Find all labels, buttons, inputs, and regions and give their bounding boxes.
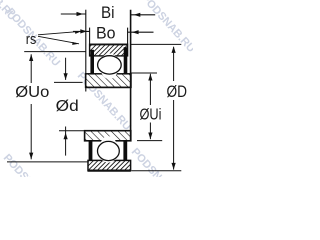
left seal (bottom section) xyxy=(89,141,93,161)
rs upper arrowhead xyxy=(75,31,82,34)
rs upper leader line xyxy=(38,31,82,35)
OD down arrowhead xyxy=(172,163,176,170)
dimension OUi xyxy=(131,73,162,141)
outer ring bottom outer-diameter edge xyxy=(88,169,131,171)
Od upper dimension line xyxy=(65,58,67,80)
inner ring bottom cross-section (hatched) xyxy=(85,131,131,141)
bore surface bottom edge xyxy=(85,130,131,132)
outer raceway groove cut (bottom) xyxy=(100,145,116,162)
OUo up arrowhead xyxy=(29,54,33,61)
dimension Od (bore) xyxy=(54,58,85,156)
svg-text:Bi: Bi xyxy=(101,3,115,22)
OD upper dimension line xyxy=(173,47,175,81)
outer raceway groove cut (top) xyxy=(101,53,117,70)
OD lower dimension line xyxy=(173,100,175,170)
Bo left extension line xyxy=(89,28,91,45)
OUi down arrowhead xyxy=(148,133,152,140)
dimension OD (outer diameter) xyxy=(131,44,181,170)
svg-text:rs: rs xyxy=(26,31,37,48)
Bi right dimension line xyxy=(131,14,155,16)
OUo upper dimension line xyxy=(30,54,32,83)
Ui recess bottom extension line xyxy=(137,140,162,142)
Bo left arrowhead xyxy=(80,29,87,33)
outer ring bottom cross-section (hatched) xyxy=(88,160,131,170)
Uo recess bottom extension line xyxy=(7,161,88,163)
Od up arrowhead xyxy=(64,133,68,140)
OUi up arrowhead xyxy=(148,74,152,81)
Bi left dimension line xyxy=(61,13,86,15)
OUi upper dimension line xyxy=(149,74,151,105)
Bo left dimension line xyxy=(73,30,90,32)
bore surface top edge xyxy=(86,86,131,88)
Bo right extension line xyxy=(127,28,129,45)
inner ring left face line / Bi left extension xyxy=(85,10,87,92)
svg-text:Bo: Bo xyxy=(96,23,116,42)
Bi right arrowhead xyxy=(134,13,141,17)
ball (bottom section) xyxy=(98,141,120,160)
ball clearance (bottom) xyxy=(96,140,121,161)
ball (top section) xyxy=(98,56,122,74)
inner ring right face line / Bi right extension xyxy=(130,10,132,141)
inner raceway groove cut (top) xyxy=(101,62,117,79)
rs lower arrowhead xyxy=(72,42,79,45)
svg-text:ØUo: ØUo xyxy=(15,84,49,101)
outer ring top outer-diameter edge xyxy=(89,44,128,46)
D bottom extension line xyxy=(132,170,182,172)
OUi lower dimension line xyxy=(149,123,151,140)
right seal (bottom section) xyxy=(123,141,127,161)
left seal (top section) xyxy=(90,50,94,74)
Ui recess top extension line xyxy=(131,72,157,74)
OUo down arrowhead xyxy=(29,153,33,160)
Bo right dimension line xyxy=(128,31,154,33)
D top extension line xyxy=(131,43,181,45)
inner raceway groove cut (bottom) xyxy=(100,136,116,153)
d bottom extension line xyxy=(59,130,85,132)
Od down arrowhead xyxy=(64,73,68,80)
inner ring top cross-section (hatched) xyxy=(86,74,131,88)
dimension Bi xyxy=(61,12,155,17)
watermark PODSNAB.RU diagonal tiles xyxy=(0,0,197,215)
rs chamfer leaders xyxy=(38,31,82,45)
Bo right arrowhead xyxy=(132,30,139,34)
OUo lower dimension line xyxy=(30,104,32,159)
OD up arrowhead xyxy=(172,46,176,53)
ball clearance (top) xyxy=(97,55,123,75)
Uo recess top extension line xyxy=(24,51,86,53)
svg-text:ØD: ØD xyxy=(167,82,188,101)
dimension OUo xyxy=(7,52,88,162)
Bi left arrowhead xyxy=(77,12,84,16)
right seal (top section) xyxy=(124,47,128,74)
dimension Bo xyxy=(73,29,154,34)
Od lower dimension line xyxy=(65,127,67,156)
rs lower leader line xyxy=(38,36,79,44)
svg-text:ØUi: ØUi xyxy=(140,106,162,123)
outer ring top cross-section (hatched) xyxy=(90,44,128,56)
d top extension line xyxy=(54,81,83,83)
svg-text:Ød: Ød xyxy=(56,98,79,115)
